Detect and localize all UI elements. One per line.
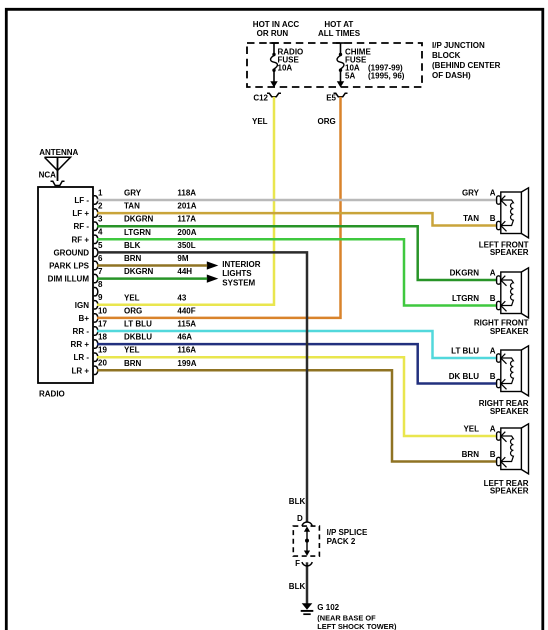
svg-text:DK BLU: DK BLU bbox=[449, 372, 479, 381]
svg-text:SPEAKER: SPEAKER bbox=[490, 327, 529, 336]
svg-text:OF DASH): OF DASH) bbox=[432, 71, 471, 80]
svg-text:BLK: BLK bbox=[124, 241, 141, 250]
svg-text:1: 1 bbox=[98, 188, 103, 197]
svg-text:RR -: RR - bbox=[73, 327, 90, 336]
svg-text:SPEAKER: SPEAKER bbox=[490, 407, 529, 416]
svg-text:GRY: GRY bbox=[124, 189, 142, 198]
svg-text:LEFT SHOCK TOWER): LEFT SHOCK TOWER) bbox=[317, 622, 397, 630]
svg-text:YEL: YEL bbox=[463, 425, 479, 434]
svg-text:440F: 440F bbox=[177, 306, 195, 315]
svg-text:G 102: G 102 bbox=[317, 603, 339, 612]
svg-text:BLK: BLK bbox=[289, 582, 306, 591]
svg-text:BRN: BRN bbox=[124, 359, 142, 368]
svg-text:YEL: YEL bbox=[124, 346, 140, 355]
svg-text:LT BLU: LT BLU bbox=[124, 320, 152, 329]
svg-text:4: 4 bbox=[98, 228, 103, 237]
svg-text:B: B bbox=[490, 294, 496, 303]
svg-text:YEL: YEL bbox=[252, 117, 268, 126]
svg-text:BLK: BLK bbox=[289, 497, 306, 506]
svg-text:A: A bbox=[490, 425, 496, 434]
svg-text:199A: 199A bbox=[177, 359, 196, 368]
svg-text:118A: 118A bbox=[177, 189, 196, 198]
svg-text:GROUND: GROUND bbox=[53, 248, 89, 257]
svg-text:C12: C12 bbox=[253, 94, 268, 103]
svg-text:DKGRN: DKGRN bbox=[450, 269, 480, 278]
svg-text:TAN: TAN bbox=[463, 214, 479, 223]
svg-text:PACK 2: PACK 2 bbox=[327, 537, 356, 546]
svg-text:A: A bbox=[490, 189, 496, 198]
svg-text:HOT AT: HOT AT bbox=[324, 20, 353, 29]
svg-text:18: 18 bbox=[98, 333, 107, 342]
svg-text:RF +: RF + bbox=[71, 235, 89, 244]
svg-text:RADIO: RADIO bbox=[39, 390, 65, 399]
svg-text:RR +: RR + bbox=[71, 340, 90, 349]
svg-text:LR -: LR - bbox=[73, 353, 89, 362]
svg-text:9: 9 bbox=[98, 293, 103, 302]
svg-text:PARK LPS: PARK LPS bbox=[49, 262, 90, 271]
svg-text:LTGRN: LTGRN bbox=[452, 294, 479, 303]
svg-text:LF -: LF - bbox=[74, 196, 89, 205]
svg-text:D: D bbox=[297, 514, 303, 523]
svg-text:(1995, 96): (1995, 96) bbox=[368, 72, 405, 81]
svg-text:DKGRN: DKGRN bbox=[124, 267, 154, 276]
svg-text:INTERIOR: INTERIOR bbox=[222, 260, 260, 269]
svg-text:(BEHIND CENTER: (BEHIND CENTER bbox=[432, 61, 501, 70]
svg-text:HOT IN ACC: HOT IN ACC bbox=[253, 20, 300, 29]
svg-text:ANTENNA: ANTENNA bbox=[39, 148, 78, 157]
svg-text:E5: E5 bbox=[326, 94, 336, 103]
svg-text:DKGRN: DKGRN bbox=[124, 215, 154, 224]
svg-text:IGN: IGN bbox=[75, 301, 89, 310]
svg-text:B+: B+ bbox=[79, 314, 90, 323]
svg-text:BLOCK: BLOCK bbox=[432, 51, 461, 60]
svg-text:A: A bbox=[490, 347, 496, 356]
svg-text:116A: 116A bbox=[177, 346, 196, 355]
svg-text:20: 20 bbox=[98, 359, 107, 368]
svg-text:NCA: NCA bbox=[39, 171, 57, 180]
svg-text:2: 2 bbox=[98, 202, 103, 211]
svg-text:DKBLU: DKBLU bbox=[124, 333, 152, 342]
svg-text:SYSTEM: SYSTEM bbox=[222, 279, 255, 288]
svg-text:BRN: BRN bbox=[462, 450, 480, 459]
svg-text:LR +: LR + bbox=[71, 366, 89, 375]
svg-text:43: 43 bbox=[177, 293, 186, 302]
svg-text:TAN: TAN bbox=[124, 202, 140, 211]
svg-text:SPEAKER: SPEAKER bbox=[490, 248, 529, 257]
svg-text:LTGRN: LTGRN bbox=[124, 228, 151, 237]
svg-text:ORG: ORG bbox=[124, 306, 142, 315]
svg-text:GRY: GRY bbox=[462, 189, 480, 198]
svg-text:3: 3 bbox=[98, 215, 103, 224]
svg-text:201A: 201A bbox=[177, 202, 196, 211]
svg-text:BRN: BRN bbox=[124, 254, 142, 263]
svg-text:A: A bbox=[490, 269, 496, 278]
svg-text:LIGHTS: LIGHTS bbox=[222, 269, 252, 278]
svg-text:B: B bbox=[490, 450, 496, 459]
svg-text:10: 10 bbox=[98, 306, 107, 315]
svg-text:B: B bbox=[490, 214, 496, 223]
svg-text:DIM ILLUM: DIM ILLUM bbox=[48, 275, 90, 284]
svg-text:9M: 9M bbox=[177, 254, 188, 263]
svg-text:7: 7 bbox=[98, 267, 103, 276]
svg-text:5: 5 bbox=[98, 241, 103, 250]
svg-text:LF +: LF + bbox=[72, 209, 89, 218]
svg-text:19: 19 bbox=[98, 346, 107, 355]
svg-text:ORG: ORG bbox=[318, 117, 336, 126]
svg-text:RF -: RF - bbox=[73, 222, 89, 231]
svg-text:350L: 350L bbox=[177, 241, 195, 250]
svg-text:10A: 10A bbox=[278, 64, 293, 73]
svg-text:200A: 200A bbox=[177, 228, 196, 237]
svg-text:6: 6 bbox=[98, 254, 103, 263]
svg-text:YEL: YEL bbox=[124, 293, 140, 302]
svg-text:ALL TIMES: ALL TIMES bbox=[318, 29, 361, 38]
svg-text:46A: 46A bbox=[177, 333, 192, 342]
svg-text:17: 17 bbox=[98, 319, 107, 328]
svg-text:115A: 115A bbox=[177, 320, 196, 329]
svg-text:8: 8 bbox=[98, 280, 103, 289]
svg-text:I/P JUNCTION: I/P JUNCTION bbox=[432, 41, 485, 50]
svg-text:5A: 5A bbox=[345, 72, 355, 81]
svg-text:B: B bbox=[490, 372, 496, 381]
svg-text:LT BLU: LT BLU bbox=[451, 347, 479, 356]
svg-text:SPEAKER: SPEAKER bbox=[490, 487, 529, 496]
svg-text:I/P SPLICE: I/P SPLICE bbox=[327, 528, 368, 537]
svg-text:117A: 117A bbox=[177, 215, 196, 224]
svg-text:44H: 44H bbox=[177, 267, 192, 276]
svg-text:F: F bbox=[295, 559, 300, 568]
svg-text:OR RUN: OR RUN bbox=[257, 29, 289, 38]
